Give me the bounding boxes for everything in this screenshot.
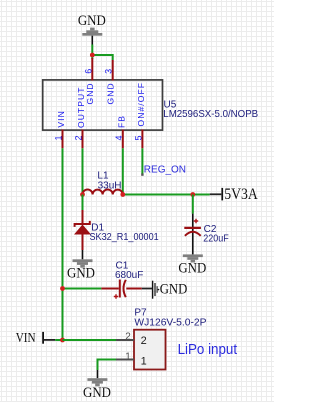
wire C1 row xyxy=(63,288,102,290)
node L1 left xyxy=(80,192,85,197)
wire GND to junction xyxy=(91,45,93,56)
svg-text:LM2596SX-5.0/NOPB: LM2596SX-5.0/NOPB xyxy=(163,109,258,120)
svg-text:GND: GND xyxy=(160,282,188,298)
wire pin5 to REG_ON xyxy=(141,148,143,174)
svg-text:ON#/OFF: ON#/OFF xyxy=(136,82,146,127)
svg-text:REG_ON: REG_ON xyxy=(144,165,186,176)
pin 2 stub xyxy=(82,130,84,149)
svg-text:VIN: VIN xyxy=(16,330,36,345)
wire junction to pin3 xyxy=(92,55,112,60)
svg-text:1: 1 xyxy=(54,135,64,140)
op-amp U5 LM2596SX-5.0/NOPB body xyxy=(43,80,163,130)
node C2 junction xyxy=(190,192,195,197)
svg-text:GND: GND xyxy=(78,13,106,29)
node L1 right xyxy=(120,192,125,197)
node VIN junction xyxy=(60,338,65,343)
svg-text:5V3A: 5V3A xyxy=(224,186,258,203)
node junction top xyxy=(90,53,95,58)
connector P7 WJ126V-5.0-2P xyxy=(116,308,207,370)
capacitor C2 220uF xyxy=(184,195,229,255)
svg-text:6: 6 xyxy=(83,69,93,74)
svg-text:GND: GND xyxy=(106,82,116,104)
pin 3 stub xyxy=(112,60,114,81)
inductor L1 xyxy=(83,170,123,194)
svg-text:33uH: 33uH xyxy=(98,180,122,191)
svg-text:GND: GND xyxy=(83,385,111,401)
svg-text:2: 2 xyxy=(141,335,147,347)
net port 5V3A xyxy=(210,186,258,203)
svg-text:SK32_R1_00001: SK32_R1_00001 xyxy=(90,232,159,244)
diode D1 SK32_R1_00001 xyxy=(74,195,159,260)
pin 4 stub xyxy=(122,130,124,149)
svg-text:2: 2 xyxy=(125,332,131,343)
wire P7 pin1 to GND xyxy=(98,360,117,371)
svg-text:GND: GND xyxy=(178,261,206,277)
svg-text:680uF: 680uF xyxy=(115,270,143,281)
svg-text:220uF: 220uF xyxy=(203,233,229,245)
svg-text:4: 4 xyxy=(114,135,124,140)
node C1 junction xyxy=(60,286,65,291)
svg-text:LiPo input: LiPo input xyxy=(178,340,238,357)
net port VIN xyxy=(16,330,63,345)
svg-text:WJ126V-5.0-2P: WJ126V-5.0-2P xyxy=(134,317,206,328)
wire L1 to 5V3A junction xyxy=(123,194,210,196)
wire pin1 VIN rail xyxy=(62,148,64,340)
net port GND (C1) xyxy=(142,281,188,299)
wire VIN to P7 pin2 xyxy=(63,339,117,341)
svg-text:1: 1 xyxy=(125,352,131,363)
ground GND4 (under P7) xyxy=(83,378,111,401)
svg-text:GND: GND xyxy=(67,266,95,282)
pin 1 stub xyxy=(62,130,64,149)
svg-text:3: 3 xyxy=(104,69,114,74)
svg-text:VIN: VIN xyxy=(56,110,66,127)
ground GND3 (under C2) xyxy=(178,254,206,276)
wire pin2 to L1 xyxy=(82,148,84,194)
svg-text:5: 5 xyxy=(134,135,144,140)
pin 6 stub xyxy=(91,58,93,81)
svg-text:GND: GND xyxy=(85,82,95,104)
wire pin4 to L1 right xyxy=(122,148,124,194)
capacitor C1 680uF xyxy=(101,261,143,299)
svg-text:2: 2 xyxy=(74,135,84,140)
wire junction to pin6 xyxy=(91,55,93,59)
node REG_ON anchor xyxy=(141,173,143,175)
pin 5 stub xyxy=(141,130,143,149)
svg-text:1: 1 xyxy=(141,355,147,367)
ground GND2 (under D1) xyxy=(67,259,95,281)
svg-text:FB: FB xyxy=(117,115,127,128)
ground GND1 (top, flipped) xyxy=(78,13,106,44)
